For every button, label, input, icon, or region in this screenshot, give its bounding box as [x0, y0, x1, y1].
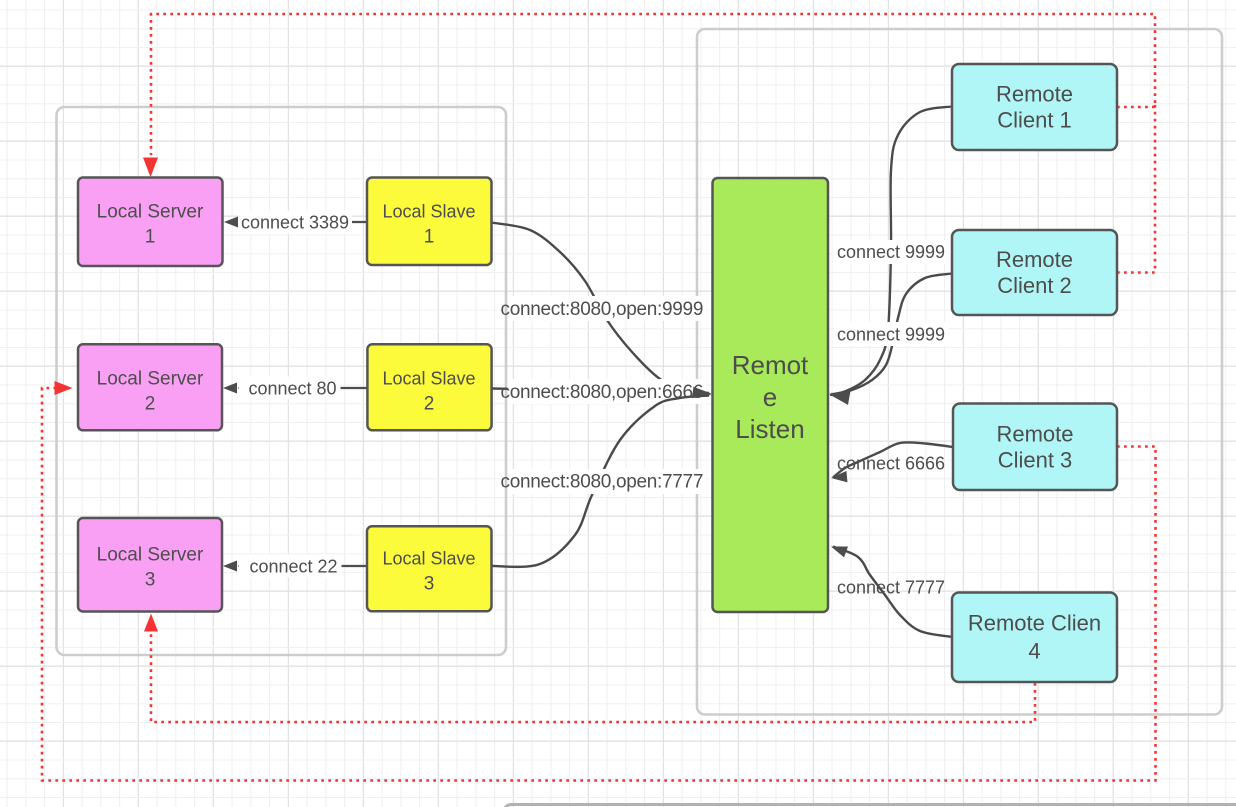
box Local Slave 3: [367, 526, 492, 611]
label bg connect 9999 (1): [834, 240, 948, 264]
svg-text:connect 7777: connect 7777: [837, 578, 945, 598]
label bg connect:8080,open:7777: [508, 469, 706, 494]
svg-text:3: 3: [145, 570, 156, 591]
svg-text:Local Server: Local Server: [97, 202, 204, 223]
container group: remote network: [697, 29, 1222, 715]
svg-text:connect:8080,open:9999: connect:8080,open:9999: [501, 299, 704, 320]
box Local Server 1: [78, 178, 223, 267]
box Local Server 2: [78, 344, 222, 430]
box Remote Listen: [713, 178, 829, 612]
svg-text:Client 3: Client 3: [998, 448, 1073, 473]
arrowhead into Remote Listen right (6666): [830, 471, 847, 484]
curve: Remote Client 1 -> Remote Listen: [831, 107, 952, 395]
svg-text:Local Slave: Local Slave: [382, 202, 475, 222]
svg-text:Local Server: Local Server: [97, 545, 204, 566]
label bg connect:8080,open:9999: [508, 296, 706, 321]
svg-text:Remote Clien: Remote Clien: [968, 611, 1101, 636]
red arrowhead into Local Server 3 bottom: [144, 614, 158, 632]
red dotted link: Remote Client 2 -> (joins above): [1117, 105, 1155, 273]
arrowhead into Remote Listen right (7777): [829, 541, 848, 557]
svg-text:2: 2: [424, 394, 435, 415]
svg-text:Remote: Remote: [996, 422, 1073, 447]
wire: Local Slave 3 -> Local Server 3: [238, 565, 367, 567]
svg-text:Local Server: Local Server: [97, 369, 204, 390]
svg-text:Local Slave: Local Slave: [382, 549, 475, 569]
svg-text:connect:8080,open:6666: connect:8080,open:6666: [501, 382, 704, 403]
svg-text:Client 2: Client 2: [997, 273, 1072, 298]
wire: Local Slave 2 -> Local Server 2: [238, 387, 367, 389]
arrowhead into Remote Listen right (9999): [828, 388, 850, 405]
box Remote Client 1: [952, 64, 1117, 150]
curve: Local Slave 3 -> Remote Listen: [492, 396, 710, 567]
svg-text:Local Slave: Local Slave: [382, 369, 475, 389]
svg-text:1: 1: [424, 227, 435, 248]
box Remote Client 4: [952, 593, 1117, 683]
red dotted link: Remote Client 4 -> Local Server 3: [151, 632, 1035, 722]
label bg connect 9999 (2): [834, 322, 948, 346]
curve: Remote Client 2 -> Remote Listen: [830, 274, 952, 396]
container group: local network: [57, 107, 507, 655]
box Local Slave 2: [367, 344, 491, 430]
svg-text:connect 6666: connect 6666: [837, 454, 945, 474]
svg-text:e: e: [763, 382, 777, 412]
box Remote Client 3: [953, 404, 1117, 491]
svg-text:1: 1: [145, 227, 156, 248]
svg-text:connect:8080,open:7777: connect:8080,open:7777: [501, 472, 704, 493]
box Local Slave 1: [367, 178, 492, 266]
container group: bottom partial: [504, 805, 1236, 807]
svg-text:4: 4: [1028, 639, 1040, 664]
arrowhead into Remote Listen left: [692, 387, 712, 401]
red dotted link: Remote Client 1 -> Local Server 1: [151, 14, 1155, 155]
svg-text:Remote: Remote: [996, 82, 1073, 107]
svg-text:connect 22: connect 22: [249, 557, 337, 577]
red dotted link: Remote Client 3 -> Local Server 2: [42, 388, 1156, 781]
wire: Local Slave 1 -> Local Server 1: [239, 221, 367, 223]
curve: Remote Client 4 -> Remote Listen: [833, 547, 952, 638]
red arrowhead into Local Server 2 left: [55, 381, 73, 395]
label bg connect 80: [239, 377, 341, 400]
label bg connect 22: [239, 555, 342, 578]
box Remote Client 2: [952, 230, 1117, 315]
label bg connect:8080,open:6666: [508, 379, 706, 404]
svg-text:2: 2: [145, 394, 156, 415]
curve: Local Slave 2 -> Remote Listen: [492, 389, 710, 394]
svg-text:connect 9999: connect 9999: [837, 242, 945, 262]
svg-text:connect 9999: connect 9999: [837, 325, 945, 345]
red arrowhead into Local Server 1 top: [143, 158, 158, 178]
label bg connect 3389: [239, 211, 353, 234]
box Local Server 3: [78, 518, 222, 612]
svg-text:Client 1: Client 1: [997, 108, 1072, 133]
svg-text:Remote: Remote: [996, 247, 1073, 272]
curve: Remote Client 3 -> Remote Listen: [833, 442, 953, 477]
svg-text:3: 3: [424, 574, 435, 595]
curve: Local Slave 1 -> Remote Listen: [492, 223, 710, 395]
svg-text:Listen: Listen: [735, 414, 804, 444]
svg-text:connect 3389: connect 3389: [241, 213, 349, 233]
svg-text:connect 80: connect 80: [248, 379, 336, 399]
svg-text:Remot: Remot: [732, 350, 809, 380]
